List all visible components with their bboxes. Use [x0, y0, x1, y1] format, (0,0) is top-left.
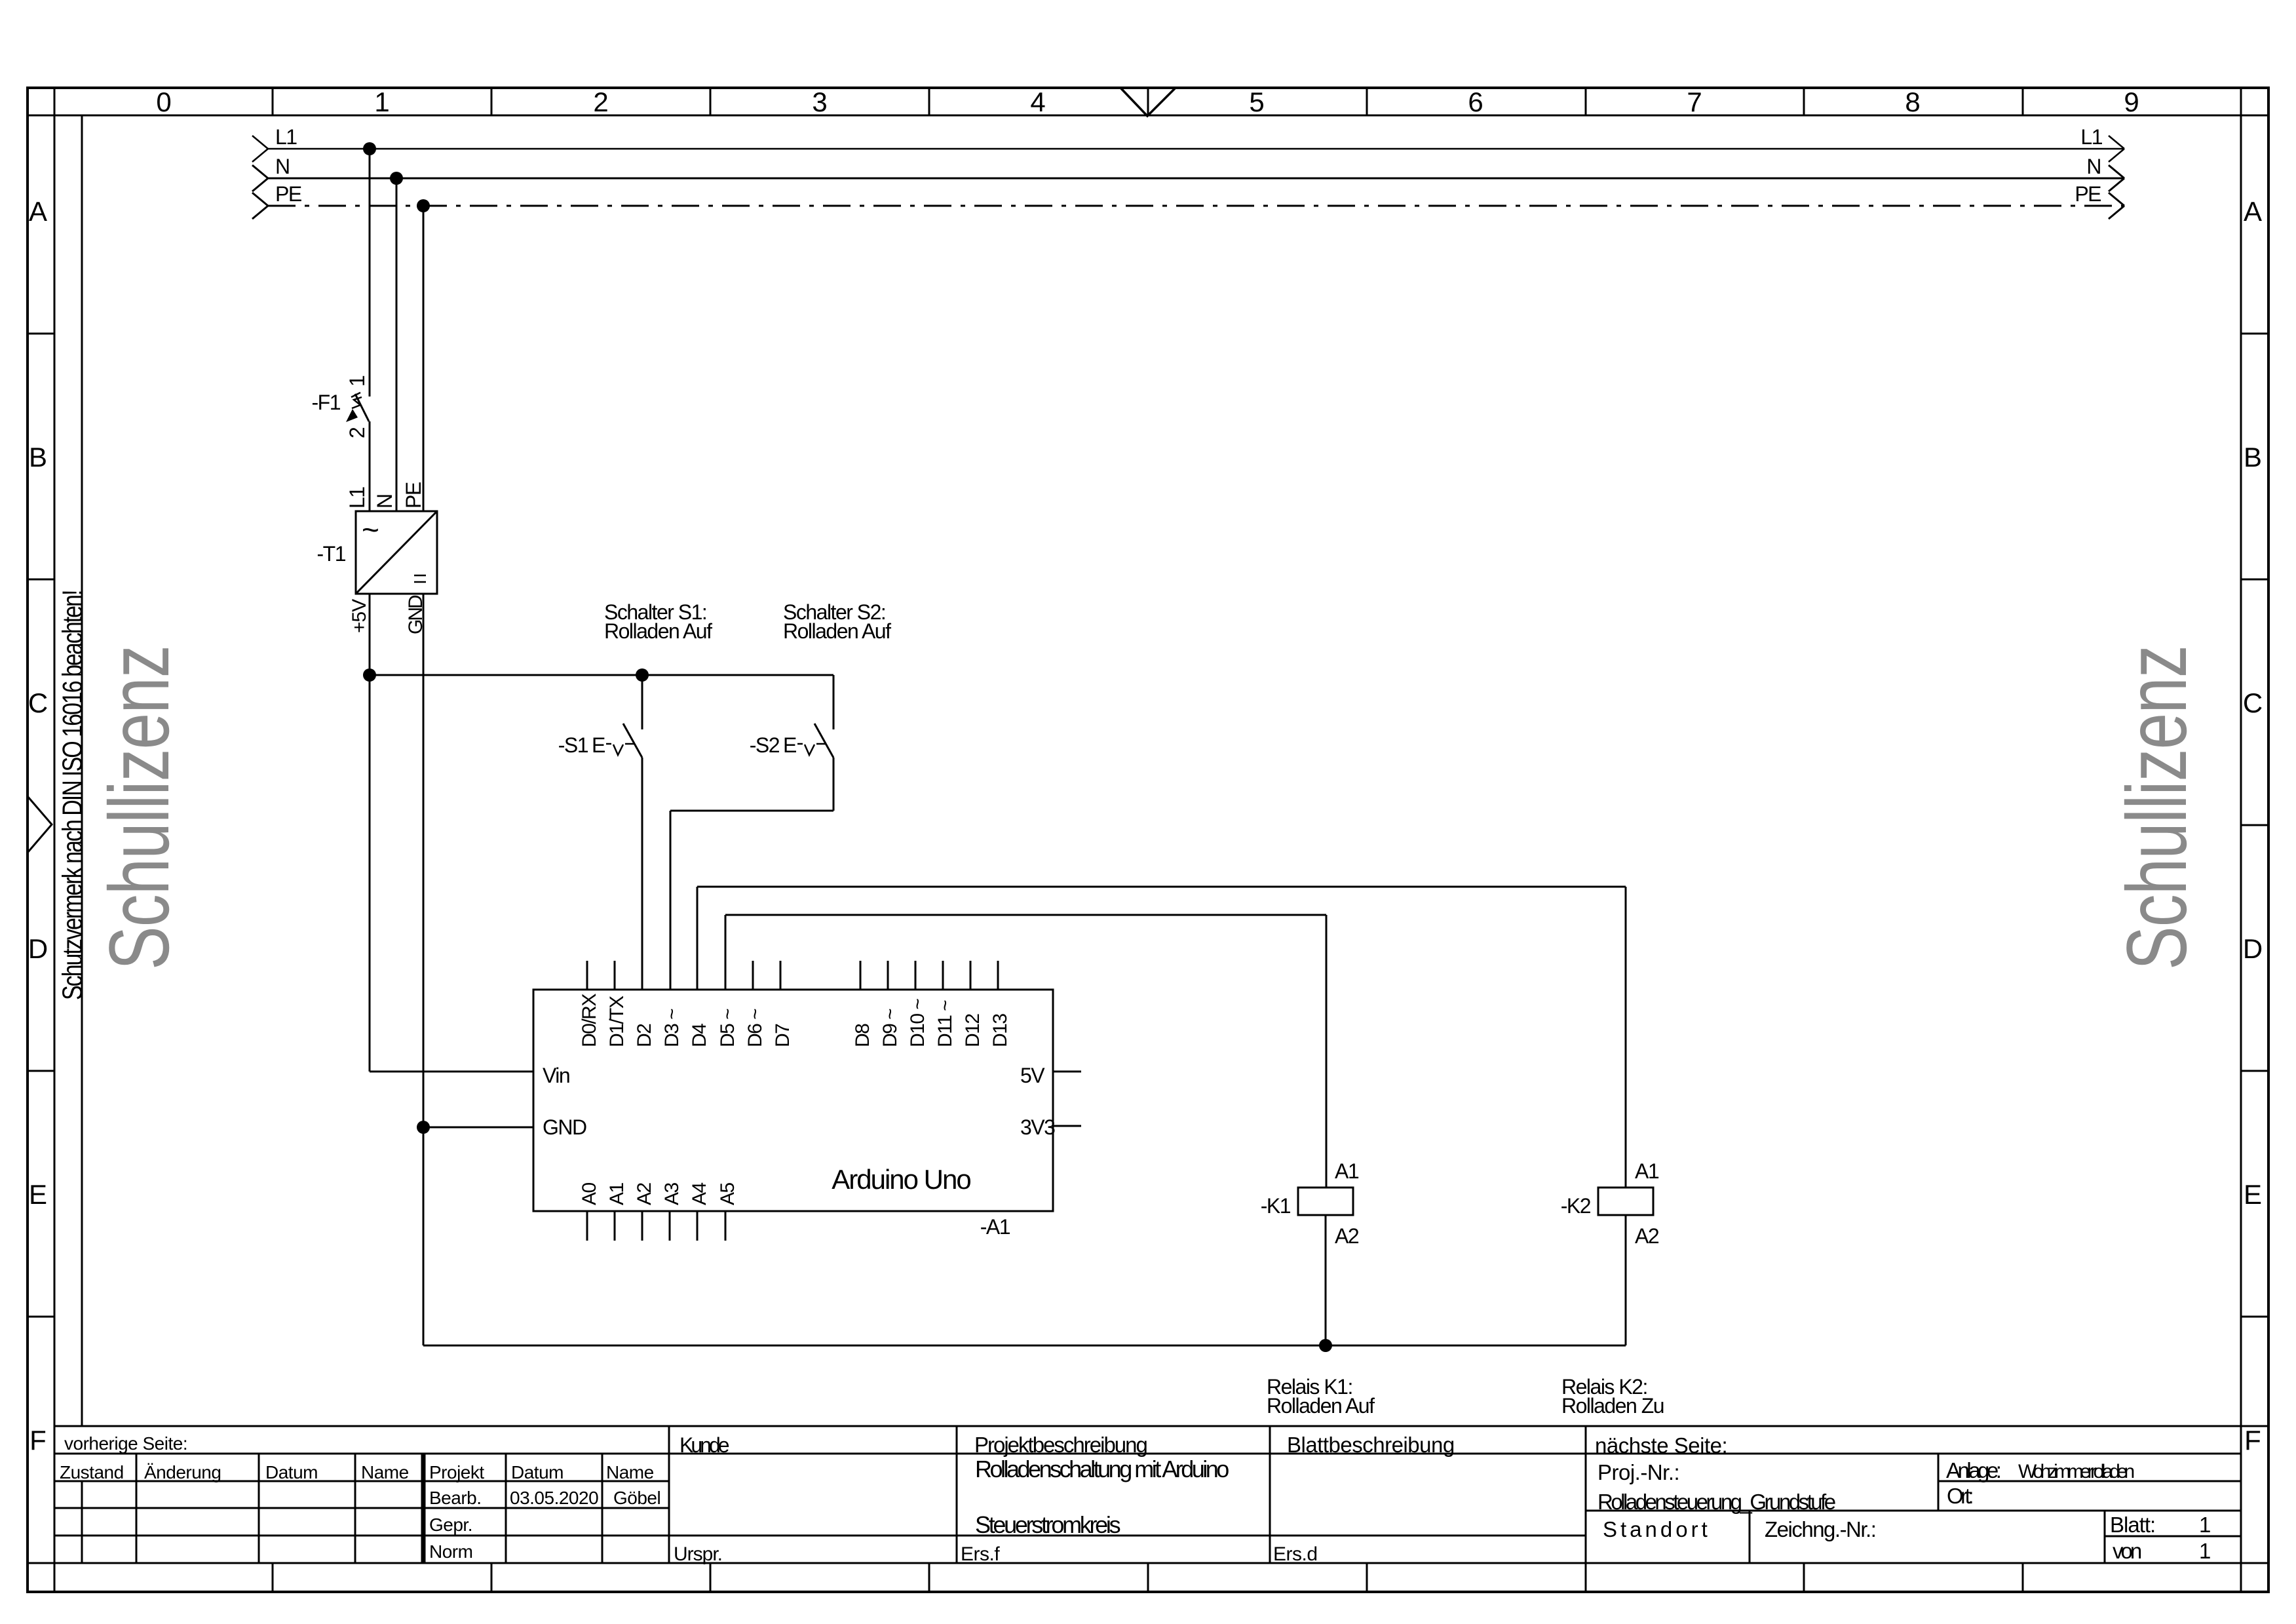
fuse F1 blade tick — [351, 393, 360, 397]
svg-text:PE: PE — [2075, 182, 2101, 206]
svg-text:L1: L1 — [345, 487, 369, 509]
pin A0 stub — [586, 1211, 588, 1241]
svg-text:Blatt:: Blatt: — [2110, 1513, 2155, 1537]
svg-text:3V3: 3V3 — [1020, 1115, 1055, 1139]
pin 5V stub — [1053, 1071, 1081, 1073]
svg-text:9: 9 — [2124, 87, 2139, 117]
svg-text:Zeichng.-Nr.:: Zeichng.-Nr.: — [1765, 1517, 1875, 1541]
Arduino U1 box — [533, 990, 1053, 1211]
svg-text:1: 1 — [374, 87, 389, 117]
net PE arrow right — [2109, 193, 2124, 219]
svg-text:Norm: Norm — [429, 1541, 472, 1562]
svg-text:-K2: -K2 — [1561, 1194, 1591, 1218]
wire D5 to relay K1 — [725, 914, 1326, 916]
pin D11 stub — [942, 961, 944, 990]
svg-text:nächste Seite:: nächste Seite: — [1595, 1433, 1727, 1458]
svg-text:Bearb.: Bearb. — [429, 1488, 482, 1508]
pin D6 stub — [752, 961, 754, 990]
svg-text:A: A — [2244, 196, 2262, 227]
svg-text:E: E — [29, 1179, 47, 1210]
svg-text:D5 ~: D5 ~ — [717, 1009, 738, 1047]
svg-text:A2: A2 — [1335, 1224, 1359, 1248]
svg-text:Anlage:: Anlage: — [1946, 1458, 2000, 1482]
svg-text:N: N — [373, 494, 396, 509]
net L1 rail — [268, 148, 2124, 150]
svg-text:Schullizenz: Schullizenz — [91, 646, 187, 970]
svg-text:Projekt: Projekt — [429, 1462, 484, 1482]
pin D9 stub — [887, 961, 889, 990]
svg-text:D0/RX: D0/RX — [579, 994, 600, 1047]
svg-text:Schutzvermerk nach DIN ISO 160: Schutzvermerk nach DIN ISO 16016 beachte… — [57, 591, 88, 1000]
wire K1 drop — [1326, 915, 1328, 1188]
svg-text:N: N — [275, 155, 290, 178]
svg-text:~: ~ — [362, 512, 378, 547]
svg-text:Rolladen Auf: Rolladen Auf — [1267, 1394, 1375, 1418]
svg-text:-K1: -K1 — [1261, 1194, 1291, 1218]
svg-text:Proj.-Nr.:: Proj.-Nr.: — [1598, 1460, 1679, 1484]
pin 3V3 stub — [1053, 1125, 1081, 1127]
T1 DC symbol — [414, 575, 426, 582]
junction node GND — [417, 1121, 430, 1134]
svg-text:L1: L1 — [275, 125, 297, 149]
wire relay common bottom — [423, 1345, 1626, 1347]
wire D4 to relay K2 — [697, 886, 1626, 888]
svg-text:B: B — [2244, 442, 2262, 473]
wire S2 horizontal — [670, 810, 833, 812]
fuse F1 release hook — [352, 397, 362, 408]
net L1 arrow right — [2109, 136, 2124, 162]
svg-text:A: A — [29, 196, 47, 227]
pin D12 stub — [970, 961, 972, 990]
fold mark top — [1120, 88, 1176, 116]
svg-text:Ers.d: Ers.d — [1273, 1543, 1318, 1565]
fuse F1 release arrow — [346, 409, 358, 422]
svg-text:A2: A2 — [634, 1182, 655, 1205]
svg-text:L1: L1 — [2080, 125, 2102, 149]
wire K2 drop — [1625, 887, 1627, 1188]
svg-text:Steuerstromkreis: Steuerstromkreis — [975, 1511, 1120, 1538]
svg-text:8: 8 — [1905, 87, 1920, 117]
svg-text:1: 1 — [2199, 1513, 2211, 1537]
pin A4 stub — [697, 1211, 698, 1241]
pin A5 stub — [725, 1211, 727, 1241]
wire GND to Arduino GND pin — [423, 1127, 533, 1129]
wire Arduino D4 up — [697, 887, 698, 990]
svg-text:1: 1 — [2199, 1539, 2211, 1563]
wire N drop to T1 pin N — [396, 178, 398, 511]
svg-text:Arduino Uno: Arduino Uno — [832, 1164, 970, 1195]
svg-text:D13: D13 — [989, 1014, 1011, 1047]
svg-text:Änderung: Änderung — [144, 1462, 221, 1482]
svg-text:D6 ~: D6 ~ — [744, 1009, 766, 1047]
wire +5V feed to switches — [370, 674, 833, 676]
svg-text:3: 3 — [812, 87, 827, 117]
net PE arrow left — [252, 193, 268, 219]
svg-text:vorherige Seite:: vorherige Seite: — [64, 1433, 187, 1454]
switch S2 blade — [814, 724, 833, 758]
svg-text:E: E — [2244, 1179, 2262, 1210]
svg-text:Blattbeschreibung: Blattbeschreibung — [1287, 1433, 1455, 1457]
svg-text:F: F — [29, 1425, 47, 1456]
pin A1 stub — [614, 1211, 616, 1241]
pin A3 stub — [669, 1211, 671, 1241]
wire S2 to Arduino D3 — [670, 811, 672, 990]
svg-text:0: 0 — [156, 87, 171, 117]
pin A2 stub — [641, 1211, 643, 1241]
svg-text:A1: A1 — [1635, 1159, 1659, 1183]
wire K2 A2 down — [1625, 1215, 1627, 1345]
wire T1 +5V down — [369, 594, 371, 1072]
svg-text:D8: D8 — [852, 1024, 873, 1047]
svg-text:6: 6 — [1468, 87, 1483, 117]
svg-text:Göbel: Göbel — [613, 1488, 660, 1508]
net N rail — [268, 178, 2124, 180]
svg-text:D2: D2 — [634, 1024, 655, 1047]
wire switch S2 upper — [833, 675, 835, 729]
svg-text:A5: A5 — [717, 1182, 738, 1205]
svg-text:-S1: -S1 — [558, 733, 588, 757]
svg-text:5: 5 — [1249, 87, 1264, 117]
net PE rail — [268, 205, 2124, 207]
svg-text:Schullizenz: Schullizenz — [2109, 646, 2204, 970]
pin D8 stub — [860, 961, 862, 990]
svg-text:C: C — [2243, 687, 2263, 718]
wire switch S1 upper — [641, 675, 643, 729]
title block grid — [54, 1425, 2268, 1427]
svg-text:D11 ~: D11 ~ — [934, 1000, 956, 1047]
svg-text:von: von — [2113, 1539, 2141, 1563]
svg-text:N: N — [2086, 155, 2101, 178]
svg-text:E: E — [783, 733, 796, 757]
wire fuse F1 to T1 pin L1 — [369, 421, 371, 511]
svg-text:Urspr.: Urspr. — [674, 1543, 722, 1565]
svg-text:A4: A4 — [689, 1182, 710, 1205]
svg-text:D12: D12 — [962, 1014, 984, 1047]
svg-text:D9 ~: D9 ~ — [879, 1009, 901, 1047]
svg-text:B: B — [29, 442, 47, 473]
svg-text:-S2: -S2 — [750, 733, 780, 757]
svg-text:GND: GND — [405, 595, 427, 634]
pin D10 stub — [915, 961, 917, 990]
junction node +5V — [363, 668, 376, 682]
junction node relay common — [1319, 1339, 1332, 1352]
svg-text:D3 ~: D3 ~ — [661, 1009, 683, 1047]
junction node S1 branch — [636, 668, 649, 682]
svg-text:Datum: Datum — [511, 1462, 564, 1482]
svg-text:A2: A2 — [1635, 1224, 1659, 1248]
svg-text:E: E — [592, 733, 605, 757]
svg-text:A0: A0 — [579, 1182, 600, 1205]
svg-text:D10 ~: D10 ~ — [907, 999, 928, 1047]
svg-text:+5V: +5V — [349, 599, 370, 633]
svg-text:Rolladen Auf: Rolladen Auf — [783, 619, 891, 643]
svg-text:2: 2 — [593, 87, 608, 117]
svg-text:4: 4 — [1030, 87, 1045, 117]
svg-text:A1: A1 — [606, 1182, 628, 1205]
svg-text:D: D — [2243, 933, 2263, 964]
svg-text:D7: D7 — [772, 1024, 794, 1047]
svg-text:D1/TX: D1/TX — [606, 996, 628, 1047]
wire T1 GND down — [423, 594, 425, 1345]
svg-text:Rolladenschaltung mit Arduino: Rolladenschaltung mit Arduino — [975, 1456, 1229, 1482]
svg-text:Name: Name — [606, 1462, 654, 1482]
relay K2 coil — [1598, 1188, 1653, 1215]
svg-text:PE: PE — [275, 182, 301, 206]
wire Arduino D5 up — [725, 915, 727, 990]
svg-text:-F1: -F1 — [312, 391, 341, 414]
svg-text:Name: Name — [361, 1462, 409, 1482]
svg-text:7: 7 — [1687, 87, 1702, 117]
svg-text:Rolladen Zu: Rolladen Zu — [1561, 1394, 1664, 1418]
svg-text:Gepr.: Gepr. — [429, 1515, 472, 1535]
wire K1 A2 down — [1325, 1215, 1327, 1345]
junction node N — [390, 172, 403, 185]
switch S1 actuator — [606, 744, 634, 755]
net N arrow left — [252, 165, 268, 191]
svg-text:Datum: Datum — [265, 1462, 318, 1482]
wire S2 down — [833, 758, 835, 811]
svg-text:Ers.f: Ers.f — [961, 1543, 1000, 1565]
svg-text:Kunde: Kunde — [679, 1433, 729, 1457]
wire S1 to Arduino D2 — [641, 758, 643, 990]
switch S2 actuator — [797, 744, 826, 755]
svg-text:A3: A3 — [661, 1182, 683, 1205]
pin D1/TX stub — [614, 961, 616, 990]
net L1 arrow left — [252, 136, 268, 162]
svg-text:Vin: Vin — [543, 1064, 569, 1087]
wire L1 drop to fuse F1 — [369, 149, 371, 396]
svg-text:D4: D4 — [689, 1024, 710, 1047]
net N arrow right — [2109, 165, 2124, 191]
switch S1 blade — [623, 724, 642, 758]
power supply T1 box — [356, 511, 437, 594]
svg-text:Wohzimmerrolladen: Wohzimmerrolladen — [2018, 1461, 2134, 1482]
pin D0/RX stub — [586, 961, 588, 990]
relay K1 coil — [1298, 1188, 1353, 1215]
svg-text:Projektbeschreibung: Projektbeschreibung — [974, 1433, 1147, 1457]
svg-text:Ort:: Ort: — [1947, 1484, 1972, 1508]
svg-text:C: C — [28, 687, 48, 718]
svg-text:2: 2 — [345, 427, 369, 438]
pin D13 stub — [997, 961, 999, 990]
svg-text:1: 1 — [345, 376, 369, 387]
svg-text:03.05.2020: 03.05.2020 — [510, 1488, 598, 1508]
svg-text:F: F — [2244, 1425, 2261, 1456]
wire +5V to Arduino Vin — [370, 1071, 533, 1073]
svg-text:-T1: -T1 — [317, 542, 346, 566]
svg-text:A1: A1 — [1335, 1159, 1359, 1183]
svg-text:-A1: -A1 — [980, 1215, 1010, 1239]
svg-text:GND: GND — [543, 1115, 586, 1139]
svg-text:Rolladensteuerung_Grundstufe: Rolladensteuerung_Grundstufe — [1598, 1490, 1835, 1514]
svg-text:5V: 5V — [1020, 1064, 1045, 1087]
fuse F1 blade — [355, 394, 369, 421]
svg-text:Rolladen Auf: Rolladen Auf — [604, 619, 712, 643]
svg-text:PE: PE — [402, 482, 425, 509]
fold mark left — [28, 796, 52, 853]
junction node L1 — [363, 142, 376, 155]
svg-text:Standort: Standort — [1603, 1517, 1711, 1541]
svg-text:D: D — [28, 933, 48, 964]
junction node PE — [417, 199, 430, 212]
pin D7 stub — [780, 961, 782, 990]
svg-text:Zustand: Zustand — [60, 1462, 124, 1482]
wire PE drop to T1 pin PE — [423, 206, 425, 511]
